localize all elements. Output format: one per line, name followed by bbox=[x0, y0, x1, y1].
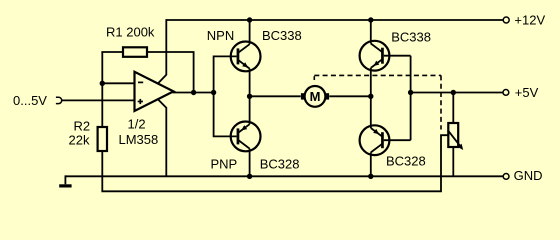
svg-text:NPN: NPN bbox=[207, 28, 234, 43]
svg-text:R1 200k: R1 200k bbox=[106, 24, 155, 39]
svg-text:M: M bbox=[310, 89, 321, 104]
svg-text:+12V: +12V bbox=[514, 12, 545, 27]
svg-text:LM358: LM358 bbox=[119, 132, 159, 147]
svg-text:BC338: BC338 bbox=[262, 28, 302, 43]
svg-text:BC328: BC328 bbox=[260, 157, 300, 172]
svg-text:PNP: PNP bbox=[211, 157, 238, 172]
svg-text:BC328: BC328 bbox=[386, 154, 426, 169]
svg-text:0...5V: 0...5V bbox=[13, 93, 47, 108]
svg-text:+5V: +5V bbox=[515, 85, 539, 100]
svg-text:22k: 22k bbox=[69, 132, 90, 147]
svg-text:1/2: 1/2 bbox=[128, 117, 146, 132]
svg-text:BC338: BC338 bbox=[391, 30, 431, 45]
svg-text:GND: GND bbox=[514, 168, 543, 183]
svg-text:R2: R2 bbox=[74, 118, 91, 133]
